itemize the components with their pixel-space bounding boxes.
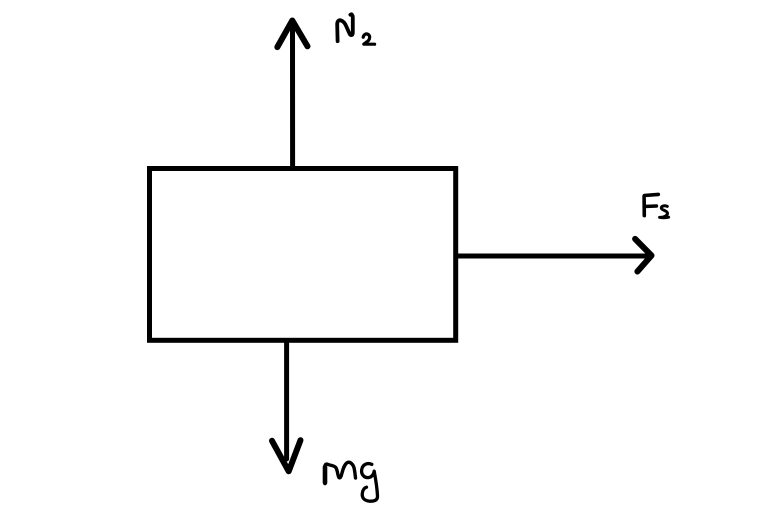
label N2 [337, 14, 374, 44]
label Fs [644, 194, 669, 217]
wire friction-force arrow shaft [458, 254, 649, 259]
wire gravity arrow shaft [284, 343, 289, 459]
block (rectangle body) [150, 169, 456, 341]
normal-force arrowhead [277, 21, 307, 48]
gravity arrowhead [272, 440, 301, 471]
friction-force arrowhead [635, 239, 651, 272]
wire normal-force arrow shaft [290, 21, 295, 166]
label mg [325, 462, 378, 501]
